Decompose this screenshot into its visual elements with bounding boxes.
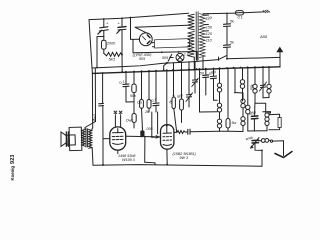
wire link to L1: [199, 68, 218, 112]
wire varcap bottom: [255, 143, 262, 166]
capacitor C4 selector: [224, 41, 235, 59]
capacitor C11: [200, 69, 209, 95]
node lamp row left: [161, 51, 163, 53]
wire V3 cathode down: [166, 149, 168, 164]
speaker driver box: [67, 135, 76, 145]
label V1 text: [132, 53, 152, 61]
wire x212 drop link: [214, 96, 218, 100]
capacitor C5 0.1: [119, 72, 134, 102]
IF transformer L2 column: [235, 68, 245, 132]
fuse F1: [236, 11, 244, 20]
node lamp top: [178, 51, 180, 53]
T1 primary winding lower: [188, 31, 195, 57]
label 505 lamp: [162, 56, 169, 60]
svg-text:2000: 2000: [106, 42, 116, 46]
node C2 zigzag junction: [121, 54, 123, 56]
wire V1 filament right: [151, 41, 188, 43]
wire right tube bottom jog: [145, 137, 155, 165]
wire osc to R9 top: [269, 114, 280, 117]
label Koenig 923: [10, 155, 16, 181]
node L2 top: [234, 92, 236, 94]
node C16 bus: [102, 72, 104, 74]
wire x240 drop: [240, 68, 254, 101]
wire dial lamp row top: [133, 52, 197, 53]
wire V2 grid left: [103, 139, 110, 165]
antenna arrow up: [276, 47, 283, 67]
wire V3 grid network: [187, 130, 220, 133]
switch arm S1a: [168, 54, 173, 61]
capacitor C9 slant: [186, 62, 193, 107]
capacitor C7 block: [140, 127, 153, 136]
tube V2 envelope: [110, 127, 126, 150]
resistor R2 5k zigzag: [104, 52, 122, 61]
resistor R8: [226, 68, 237, 131]
capacitor C12: [208, 68, 217, 96]
node V1 rail: [130, 17, 132, 19]
label V3 type: [173, 152, 197, 160]
label V2 type: [118, 154, 136, 162]
wire V3 anode right: [174, 131, 177, 133]
capacitor C10 slant: [192, 62, 198, 94]
capacitor C8: [151, 71, 159, 112]
coil L4: [267, 67, 271, 98]
wire C1 negative to upper rail: [97, 36, 104, 67]
svg-text:5kΩ: 5kΩ: [109, 58, 116, 62]
node V3 cathode bottom: [166, 164, 168, 166]
wire V1 anode 2 to transformer: [135, 25, 188, 34]
wire V2 cathode down: [117, 150, 119, 153]
wire L4 bottom link: [255, 98, 269, 113]
capacitor C17 series: [188, 129, 190, 134]
ground arrow: [275, 152, 292, 158]
variable capacitor C15: [245, 136, 259, 149]
wire T1 bottom legs to bus: [193, 57, 204, 70]
node fuse branch: [226, 13, 228, 15]
T1 secondary winding: [199, 14, 205, 58]
svg-text:505: 505: [139, 57, 146, 61]
oscillator coil L6: [263, 112, 271, 131]
wire T1 top tap to fuse: [203, 12, 236, 15]
capacitor C1 electrolytic: [98, 19, 109, 37]
node C2 top: [121, 17, 123, 19]
node varcap bottom: [261, 150, 263, 152]
svg-text:5k: 5k: [230, 41, 234, 45]
wire lower bus: [92, 67, 280, 74]
resistor R5 zigzag: [177, 131, 187, 134]
svg-text:5w: 5w: [232, 121, 237, 125]
svg-text:110: 110: [206, 39, 213, 43]
svg-text:923: 923: [10, 155, 16, 164]
wire V3 left pins: [152, 112, 161, 138]
svg-text:1k: 1k: [169, 100, 174, 105]
svg-text:Ca: Ca: [137, 101, 142, 105]
resistor R7: [177, 62, 184, 122]
capacitor C6: [137, 71, 143, 128]
svg-text:A58: A58: [259, 34, 268, 39]
wire IF bottom link: [220, 130, 244, 132]
wire left rail: [89, 20, 93, 128]
svg-text:9W 3: 9W 3: [180, 156, 190, 160]
wire V1 anode left: [131, 18, 140, 40]
power transformer T1: [188, 12, 206, 60]
svg-text:150: 150: [206, 25, 213, 29]
wire V2 anode to V3 grid: [126, 136, 161, 138]
node switch junction: [226, 58, 228, 60]
wire top rail: [89, 13, 189, 19]
resistor R1 2000: [102, 37, 117, 54]
svg-text:50k: 50k: [130, 94, 136, 98]
svg-text:+: +: [118, 21, 121, 26]
node T2 feed: [92, 119, 94, 121]
rectifier V1: [139, 33, 152, 46]
T1 core: [196, 12, 198, 60]
node bus junction dots: [121, 66, 270, 73]
wire T1 tap 150: [205, 24, 213, 29]
svg-text:+: +: [106, 21, 109, 26]
IF transformer L1 column: [217, 68, 221, 131]
wire V3 top pin: [166, 62, 168, 125]
wire upper rail: [92, 62, 197, 69]
wire T1 tap 220: [204, 15, 213, 21]
node bottom rail junction: [102, 164, 104, 166]
label box V1 type: [154, 39, 189, 48]
wire V1 filament right 2: [153, 46, 188, 48]
switch S1: [219, 56, 227, 61]
wire fuse to mains cord: [244, 11, 265, 14]
svg-text:0.1: 0.1: [238, 16, 243, 20]
coil L3: [253, 67, 257, 103]
svg-text:505: 505: [162, 56, 169, 60]
wire osc bottom link: [248, 130, 267, 132]
speaker frame loop: [69, 127, 82, 151]
tube V3 envelope: [161, 125, 174, 150]
svg-text:Koenig: Koenig: [10, 166, 15, 181]
dial lamp LA1: [176, 53, 190, 61]
wire T1 tap 125: [205, 31, 213, 36]
resistor R3: [130, 72, 136, 102]
label left rail Dm2: [93, 114, 97, 122]
wire mains switch line: [197, 57, 280, 61]
wire C2 to lower bus: [121, 55, 123, 72]
capacitor C2 electrolytic: [117, 18, 126, 55]
wire V2 top pins: [114, 111, 122, 127]
wire T1 tap 110: [205, 37, 213, 43]
wire T2 secondary bottom: [91, 147, 93, 150]
svg-text:5k: 5k: [230, 20, 234, 24]
svg-text:W199 3: W199 3: [122, 158, 136, 162]
svg-text:mw2: mw2: [93, 114, 97, 122]
svg-text:125: 125: [206, 32, 213, 36]
trimmer C13: [260, 67, 267, 98]
wire bottom rail: [93, 165, 262, 167]
wire lamp row drop to bus: [164, 62, 168, 70]
svg-text:2k: 2k: [144, 110, 149, 114]
wire T2 secondary top: [91, 128, 94, 130]
capacitor C3 selector: [224, 20, 235, 45]
resistor R4: [144, 71, 151, 114]
wire to ground arrow: [270, 140, 283, 156]
node lamp bottom: [178, 61, 180, 63]
svg-text:.005: .005: [146, 127, 154, 131]
output transformer T2: [82, 129, 92, 149]
wire left rail lower: [91, 149, 94, 166]
capacitor C14 padder: [248, 103, 258, 131]
resistor R6: [169, 63, 178, 133]
svg-text:Dwk: Dwk: [126, 119, 133, 123]
capacitor C14 oscillator: [246, 67, 250, 131]
choke Dr: [126, 102, 136, 128]
capacitor C16 grid coupling: [99, 73, 104, 139]
speaker LS: [61, 132, 68, 147]
wire T2 primary feed: [85, 68, 96, 129]
svg-text:220: 220: [204, 16, 213, 21]
svg-text:50k: 50k: [177, 93, 184, 99]
wire V1 filament down: [132, 40, 134, 53]
mains cord end: [263, 10, 270, 13]
resistor R9: [269, 118, 281, 130]
svg-text:nf50: nf50: [208, 70, 217, 76]
wire voltage selector drop: [226, 13, 228, 23]
T1 primary winding upper: [188, 14, 195, 30]
node C1 top: [103, 18, 105, 20]
node V3 top: [166, 125, 168, 127]
tuning coil L5: [259, 139, 270, 143]
node C1 rail: [96, 67, 98, 69]
label A58: [259, 34, 268, 39]
wire lamp right leg: [196, 52, 198, 62]
